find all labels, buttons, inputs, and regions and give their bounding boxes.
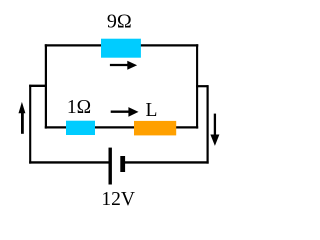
inductor L body xyxy=(134,121,176,135)
wire top branch horizontal xyxy=(45,44,199,46)
wire bottom left segment xyxy=(29,161,108,163)
wire left jog horizontal xyxy=(29,85,47,87)
resistor 9ohm body xyxy=(101,39,141,58)
resistor 1ohm body xyxy=(66,121,95,135)
wire outer right vertical xyxy=(207,85,209,163)
battery 12V long plate xyxy=(109,148,112,185)
svg-text:1Ω: 1Ω xyxy=(67,97,91,118)
wire outer left vertical xyxy=(29,85,31,164)
wire middle branch horizontal xyxy=(45,126,198,128)
current arrow right down xyxy=(210,114,219,146)
wire bottom right segment xyxy=(125,161,209,163)
current arrow middle branch xyxy=(111,107,139,117)
current arrow left up xyxy=(19,102,26,134)
wire inner left vertical xyxy=(45,44,47,128)
wire right jog horizontal xyxy=(196,85,209,87)
svg-text:L: L xyxy=(145,100,157,121)
svg-text:9Ω: 9Ω xyxy=(107,11,132,33)
current arrow top branch xyxy=(110,61,137,70)
wire inner right vertical xyxy=(196,44,198,128)
svg-text:12V: 12V xyxy=(101,189,135,210)
battery 12V short plate xyxy=(120,156,125,172)
